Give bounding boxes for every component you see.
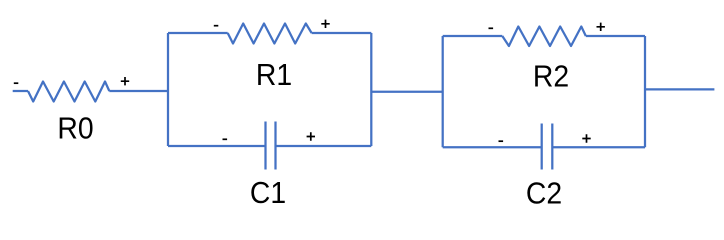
plus label R2 right: [597, 23, 605, 31]
svg-text:C1: C1: [250, 176, 286, 210]
wire block1 bottom right: [276, 145, 372, 147]
wire block1 right side: [370, 33, 372, 146]
minus label R2 left: [489, 27, 494, 29]
wire block2 bottom right: [552, 146, 645, 148]
wire block1 top right: [312, 32, 372, 34]
svg-text:R1: R1: [256, 58, 292, 92]
wire right lead: [645, 88, 714, 90]
svg-text:C2: C2: [526, 176, 562, 210]
wire block1 to block2: [371, 91, 442, 93]
svg-text:R0: R0: [57, 112, 93, 146]
wire block1 left side: [167, 33, 169, 146]
wire block2 bottom left: [443, 146, 542, 148]
plus label R0 right: [121, 77, 129, 85]
minus label R0 left: [14, 82, 18, 84]
minus label C1 left: [223, 138, 228, 140]
plus label C1 right: [307, 132, 315, 140]
wire left lead: [13, 90, 28, 92]
wire block2 right side: [644, 36, 646, 147]
wire block1 top left: [168, 32, 228, 34]
svg-text:R2: R2: [533, 59, 569, 93]
plus label C2 right: [582, 134, 590, 142]
capacitor C1: [266, 122, 276, 170]
wire R0 to block1: [109, 90, 168, 92]
plus label R1 right: [321, 20, 329, 28]
minus label C2 left: [499, 140, 504, 142]
wire block2 left side: [442, 36, 444, 147]
resistor R0: [28, 82, 109, 102]
minus label R1 left: [214, 25, 219, 27]
wire block2 top right: [586, 35, 645, 37]
resistor R2: [502, 27, 586, 47]
capacitor C2: [542, 124, 553, 170]
wire block1 bottom left: [168, 145, 266, 147]
wire block2 top left: [443, 35, 503, 37]
resistor R1: [228, 24, 312, 44]
